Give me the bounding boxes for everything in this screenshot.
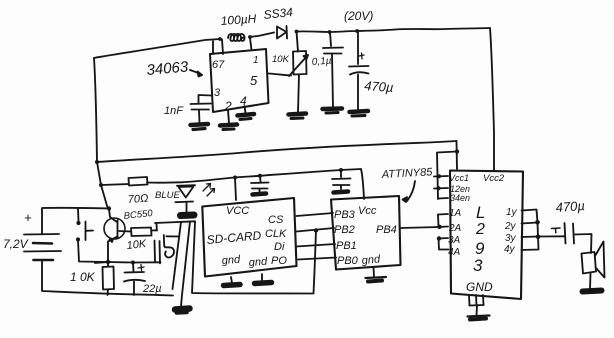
svg-text:3: 3 — [473, 256, 483, 275]
wire pin6/7 risers — [212, 41, 214, 54]
svg-text:1A: 1A — [449, 208, 462, 219]
svg-text:+: + — [24, 210, 32, 225]
svg-text:gnd: gnd — [248, 256, 268, 269]
wire 1,2EN stub — [434, 187, 448, 190]
switch S1 pushbutton — [77, 209, 80, 223]
svg-text:1 0K: 1 0K — [70, 270, 96, 284]
wire PB4 to L293 inputs — [401, 227, 440, 228]
ground ATtiny — [373, 268, 376, 277]
wire input bracket 3A/4A — [439, 237, 449, 240]
svg-text:3y: 3y — [505, 233, 517, 244]
node junction dots on top rail — [218, 37, 222, 41]
wire pin1 riser — [250, 38, 252, 50]
LED light arrows — [203, 184, 211, 192]
ground SD pin1 — [231, 277, 232, 283]
wire SD wrap box (CLK return loop) — [192, 222, 316, 294]
wire trimmer to ground — [298, 75, 299, 113]
wire output node to coupling cap — [538, 235, 564, 237]
ground speaker — [583, 291, 602, 292]
wire pin5 to trimmer — [269, 74, 292, 76]
capacitor C3 470u electrolytic — [357, 31, 359, 64]
wire B : logic vcc rail 70ohm/LED/SD/ATtiny — [101, 184, 129, 185]
capacitor C2 0.1u — [330, 32, 331, 46]
svg-text:Vcc2: Vcc2 — [483, 173, 505, 184]
svg-text:PO: PO — [271, 255, 287, 267]
wire A branch to EN bracket — [437, 152, 457, 200]
node rail-B junction — [99, 183, 103, 187]
wire SD PO to PB0 — [298, 258, 336, 260]
svg-text:4y: 4y — [504, 244, 516, 255]
resistor R2 10K trimmer — [297, 32, 299, 52]
svg-text:67: 67 — [212, 59, 225, 71]
svg-text:2y: 2y — [504, 221, 517, 232]
capacitor C7 470u coupling — [565, 223, 566, 244]
svg-text:BC550: BC550 — [123, 208, 154, 222]
svg-text:34en: 34en — [450, 193, 470, 203]
resistor R5 10K to ground — [107, 262, 109, 267]
connector bars and curl — [154, 241, 157, 263]
svg-text:470µ: 470µ — [555, 198, 585, 215]
svg-text:100µH: 100µH — [220, 12, 257, 28]
svg-text:BLUE: BLUE — [155, 190, 180, 201]
svg-text:(20V): (20V) — [344, 9, 373, 23]
svg-text:2A: 2A — [448, 223, 462, 234]
driver U3 L293 box — [450, 171, 523, 300]
svg-text:470µ: 470µ — [364, 78, 394, 95]
wire 3,4EN stub — [438, 197, 448, 200]
battery BT1 7.2V — [42, 208, 109, 234]
wire top rail from box corner through inductor/diode to 20V and down to L293 VCC2 — [94, 39, 220, 58]
svg-text:PB1: PB1 — [336, 240, 357, 252]
svg-text:SS34: SS34 — [263, 5, 294, 22]
svg-text:CS: CS — [268, 214, 284, 226]
svg-text:PB2: PB2 — [334, 224, 355, 236]
svg-text:PB4: PB4 — [376, 224, 397, 236]
svg-text:1: 1 — [253, 55, 259, 66]
sd-card module box — [202, 198, 296, 277]
wire pin2 stem + ground — [228, 110, 229, 123]
ground at C1 — [191, 124, 209, 125]
capacitor C5 bypass at SD — [259, 176, 262, 182]
diode D1 SS34 — [277, 27, 287, 39]
transistor Q1 BC550 — [104, 218, 125, 239]
wire A : VCC1 feed rail — [97, 141, 457, 162]
svg-text:70Ω: 70Ω — [127, 193, 148, 206]
attiny85 U2 box — [331, 196, 401, 270]
wire SD CLK to PB2 — [297, 228, 335, 232]
svg-text:1nF: 1nF — [164, 105, 184, 117]
svg-text:3A: 3A — [448, 235, 461, 246]
wire tall loop LED cathode to ground — [155, 221, 195, 223]
wire emitter node to bars — [95, 262, 161, 263]
LED cathode bar blob — [181, 212, 195, 220]
capacitor C6 bypass at ATtiny — [340, 170, 342, 177]
svg-text:10K: 10K — [126, 238, 147, 252]
svg-text:Di: Di — [274, 241, 285, 253]
ground L293 bottom pins — [468, 295, 471, 306]
wire VCC1 stub — [434, 175, 448, 178]
svg-text:ATTINY85: ATTINY85 — [381, 166, 434, 181]
svg-text:gnd: gnd — [221, 254, 241, 267]
wire pin4 stem + ground — [245, 106, 246, 113]
svg-text:0,1µ: 0,1µ — [311, 56, 332, 68]
svg-text:GND: GND — [466, 280, 493, 294]
svg-text:22µ: 22µ — [142, 283, 162, 295]
svg-text:gnd: gnd — [361, 253, 381, 267]
svg-text:PB3: PB3 — [334, 209, 356, 221]
inductor L1 100uH — [228, 34, 245, 41]
wire SD CS to PB3 — [297, 213, 334, 216]
IC U1 34063 boost converter body — [210, 49, 269, 112]
svg-text:1y: 1y — [506, 207, 518, 218]
svg-text:2: 2 — [475, 221, 485, 238]
svg-text:3: 3 — [214, 87, 221, 99]
svg-text:L: L — [476, 203, 485, 222]
svg-text:4A: 4A — [448, 247, 461, 258]
svg-text:10K: 10K — [272, 54, 290, 65]
svg-text:4: 4 — [240, 94, 247, 108]
capacitor C1 1nF — [191, 103, 212, 106]
svg-text:Vcc1: Vcc1 — [449, 173, 469, 183]
ground under tall loop — [175, 309, 190, 310]
speaker LS1 — [582, 252, 597, 274]
svg-text:CLK: CLK — [265, 228, 287, 240]
wire left rail (battery+ / boost input) — [94, 58, 108, 208]
svg-text:SD-CARD: SD-CARD — [206, 228, 262, 247]
node rail-A junction — [95, 160, 99, 164]
svg-text:VCC: VCC — [226, 205, 249, 217]
svg-text:5: 5 — [250, 73, 258, 88]
svg-text:34063: 34063 — [146, 58, 190, 79]
ground SD pin2 — [261, 274, 263, 281]
capacitor C4 22u — [131, 261, 135, 265]
wire cap to speaker — [574, 234, 592, 253]
ground at C2 — [323, 106, 343, 111]
node emitter junction — [106, 260, 110, 264]
svg-text:Vcc: Vcc — [358, 205, 377, 217]
wire SD Di to PB1 — [297, 244, 336, 247]
svg-text:PB0: PB0 — [337, 255, 359, 267]
wire output bracket 1Y/2Y — [522, 210, 538, 224]
ground at C3 — [350, 111, 369, 112]
wire pin3 to 1nF — [199, 95, 212, 103]
wire input bracket 1A/2A — [438, 213, 448, 216]
resistor R4 10K base — [131, 228, 152, 237]
wire output bracket 3Y/4Y — [537, 223, 540, 237]
resistor R3 70ohm — [129, 177, 148, 186]
svg-text:7,2V: 7,2V — [3, 237, 29, 251]
wire SD vcc riser — [235, 178, 236, 200]
